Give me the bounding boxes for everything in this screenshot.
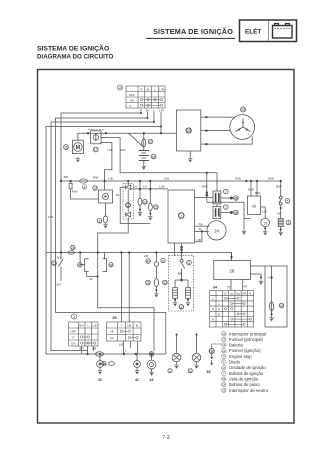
wire lamp44 drop [151, 354, 153, 371]
svg-text:30: 30 [252, 204, 257, 209]
svg-text:P: P [72, 336, 74, 340]
svg-text:R: R [140, 87, 142, 91]
svg-text:L/B: L/B [93, 324, 97, 328]
wire resistor branch [71, 181, 99, 199]
wire bus L from main switch [51, 112, 154, 354]
svg-text:16: 16 [152, 155, 156, 159]
svg-text:12: 12 [52, 262, 56, 266]
svg-text:40: 40 [146, 260, 150, 264]
svg-text:L: L [154, 87, 156, 91]
svg-text:L/B: L/B [127, 324, 131, 328]
svg-text:L/B: L/B [144, 254, 148, 258]
wire table3 drops [82, 346, 94, 354]
ground below 13 [138, 211, 142, 216]
wire unit30 to switch13 [261, 207, 266, 230]
svg-text:Interruptor de neutro: Interruptor de neutro [229, 388, 269, 393]
wire diode box feed [98, 181, 154, 351]
svg-text:7: 7 [180, 214, 182, 218]
wire cdi right B [195, 230, 209, 232]
svg-text:P: P [130, 104, 132, 108]
svg-text:9: 9 [180, 305, 182, 309]
svg-text:B/R: B/R [64, 175, 69, 179]
svg-text:Diodo: Diodo [229, 360, 241, 365]
wire bracket components link [80, 253, 105, 277]
svg-text:Br: Br [146, 108, 149, 112]
svg-text:OFF: OFF [129, 93, 135, 97]
svg-text:27: 27 [222, 338, 226, 342]
svg-text:L/B: L/B [196, 238, 200, 242]
svg-text:26: 26 [241, 108, 245, 112]
wire coil link [216, 204, 218, 207]
svg-text:LO: LO [110, 336, 115, 340]
svg-text:M: M [76, 145, 80, 151]
svg-text:B: B [199, 227, 201, 231]
svg-text:5: 5 [287, 200, 289, 204]
lamp 44 [147, 352, 156, 382]
svg-text:L/B: L/B [262, 210, 266, 214]
svg-text:4: 4 [223, 355, 225, 359]
svg-text:L/W: L/W [48, 215, 53, 219]
ground box28 branch [259, 280, 263, 285]
svg-text:R/W: R/W [93, 176, 99, 180]
sensor 2 [97, 216, 108, 223]
svg-text:2: 2 [99, 219, 101, 223]
svg-text:L/W: L/W [159, 185, 164, 189]
svg-text:20: 20 [71, 246, 75, 250]
svg-text:17: 17 [222, 366, 226, 370]
svg-text:Fusível (principal): Fusível (principal) [229, 337, 263, 342]
lamp 45 [172, 353, 181, 362]
svg-text:Interruptor principal: Interruptor principal [229, 331, 266, 336]
svg-text:Y/R: Y/R [242, 292, 246, 296]
resistor on branch [69, 183, 72, 189]
legend group [222, 331, 269, 393]
svg-text:Y/G: Y/G [268, 276, 274, 280]
svg-text:10: 10 [222, 332, 226, 336]
svg-text:R/W: R/W [248, 188, 254, 192]
svg-text:24: 24 [214, 228, 220, 233]
wire magneto phase 1 [201, 116, 235, 118]
wire bus R from main switch [61, 112, 141, 253]
AC magneto 26 [230, 107, 255, 139]
diode unit 1 dashed box [123, 184, 133, 219]
svg-text:Bobina de ignição: Bobina de ignição [229, 371, 264, 376]
battery icon in header box [273, 24, 293, 38]
relay box 12 [93, 186, 113, 203]
svg-text:41: 41 [135, 378, 139, 382]
fuse F27 main [142, 139, 153, 147]
svg-text:Y: Y [120, 324, 122, 328]
svg-text:ELÉT: ELÉT [245, 27, 261, 36]
svg-text:OFF: OFF [70, 330, 76, 334]
wire main bus 2 [61, 180, 281, 182]
svg-text:L: L [212, 297, 214, 301]
wire lamp41 drop [136, 354, 138, 369]
pickup rotor 24 [207, 221, 226, 240]
svg-text:15: 15 [64, 146, 68, 150]
svg-text:4: 4 [84, 186, 86, 190]
neutral switch 13b [261, 218, 270, 227]
svg-text:Dg: Dg [236, 292, 240, 296]
svg-text:R/W: R/W [255, 191, 261, 195]
svg-text:1: 1 [223, 360, 225, 364]
svg-text:13: 13 [263, 221, 267, 225]
svg-text:23: 23 [222, 388, 226, 392]
wire table35 feeds from bus3 [121, 253, 129, 323]
svg-text:12: 12 [93, 187, 97, 191]
svg-text:L/B: L/B [119, 343, 123, 347]
components group [52, 107, 291, 382]
svg-text:Bobina de pulso: Bobina de pulso [229, 382, 260, 387]
wire R/W drop to coil tops [101, 138, 217, 203]
svg-text:33: 33 [163, 281, 167, 285]
wire box28 top [231, 253, 233, 261]
svg-text:DIAGRAMA DO CIRCUITO: DIAGRAMA DO CIRCUITO [37, 54, 113, 61]
wire bus 3 [46, 253, 232, 261]
wire magneto phase 2 [201, 130, 231, 132]
ignition unit box 7 [168, 190, 195, 243]
svg-text:B: B [136, 324, 138, 328]
svg-text:27: 27 [149, 140, 153, 144]
grounds pickup coils [173, 301, 177, 306]
svg-text:R: R [212, 318, 215, 322]
svg-text:24: 24 [222, 383, 226, 387]
svg-text:L/R: L/R [159, 87, 164, 91]
svg-text:7: 7 [223, 371, 225, 375]
svg-text:35: 35 [112, 316, 116, 320]
dimmer switch table 35 [107, 316, 142, 341]
label lamp 45 [168, 369, 172, 374]
connection table 34 [210, 286, 254, 327]
ground below sensor 2 [103, 223, 107, 228]
svg-text:HI: HI [110, 330, 113, 334]
svg-text:25: 25 [187, 129, 191, 133]
svg-text:44: 44 [150, 378, 154, 382]
fuse 4 on main bus [80, 179, 88, 190]
svg-text:SISTEMA DE IGNIÇÃO: SISTEMA DE IGNIÇÃO [37, 44, 109, 53]
wire box28 right loop [250, 266, 287, 327]
connector break on coil feed [206, 192, 208, 196]
wire table35 drops [124, 341, 138, 354]
svg-text:B/Y: B/Y [57, 255, 62, 259]
svg-text:N: N [218, 307, 220, 311]
wire magneto phase 3 [201, 136, 252, 144]
engine stop switch 5 [279, 196, 290, 205]
tables group [69, 85, 254, 346]
wire coil common [207, 202, 251, 229]
svg-text:7: 7 [225, 206, 227, 210]
lamp 41 [134, 361, 141, 382]
ground engine stop chain [279, 231, 283, 236]
ground below 23 [148, 215, 152, 220]
unit box 30 [248, 196, 261, 214]
svg-text:8: 8 [162, 259, 164, 263]
svg-text:L: L [87, 324, 89, 328]
resistor 43 [270, 302, 284, 311]
svg-text:Sb: Sb [116, 193, 120, 197]
svg-text:23: 23 [146, 281, 150, 285]
svg-text:L/W: L/W [164, 176, 169, 180]
pulse unit box 28 [214, 261, 251, 280]
connector break on cdi drop [181, 246, 183, 251]
wire engine stop chain [280, 181, 282, 231]
wire neutral branch D [149, 181, 151, 215]
bracket resistor 30b [103, 256, 114, 272]
wire resistor 43 chain [271, 266, 273, 316]
wire battery drop [143, 133, 145, 150]
svg-text:L: L [218, 302, 220, 306]
svg-text:SISTEMA DE IGNIÇÃO: SISTEMA DE IGNIÇÃO [153, 27, 233, 36]
wire chain 33 [155, 253, 157, 293]
svg-text:46: 46 [234, 211, 238, 215]
wire unit30 feeds [251, 181, 257, 196]
wire diagonal to battery [129, 133, 144, 147]
wires group [46, 112, 287, 371]
svg-text:B/R: B/R [178, 272, 183, 276]
svg-text:N: N [212, 307, 214, 311]
wire cdi right Dg [195, 225, 210, 227]
svg-text:23: 23 [154, 206, 158, 210]
svg-text:10: 10 [118, 86, 122, 90]
wire plug lead 1 [221, 197, 231, 199]
svg-text:Dg: Dg [199, 222, 203, 226]
handlebar switch table 3 [69, 314, 98, 346]
ignition coil connector 7a [213, 189, 228, 204]
svg-text:B/W: B/W [276, 185, 282, 189]
svg-text:43: 43 [280, 304, 284, 308]
svg-text:L/W: L/W [107, 148, 112, 152]
svg-text:8: 8 [288, 221, 290, 225]
svg-text:46: 46 [234, 197, 238, 201]
fuse F17 [91, 131, 101, 152]
switch 23 [148, 203, 158, 210]
header title text [37, 20, 297, 441]
ground below 13b [263, 230, 267, 235]
main switch table 10 [117, 85, 165, 108]
svg-text:L/B: L/B [92, 347, 96, 351]
wire plug lead 2 [221, 212, 231, 214]
wire fuse feed line [78, 132, 176, 134]
ignition coil connector 7b [213, 205, 228, 219]
wire neutral branch C [139, 181, 141, 211]
side switch 12b [52, 261, 57, 266]
wire switch chain left [59, 253, 64, 282]
wire cdi bottom drop [175, 243, 182, 259]
svg-text:R: R [218, 312, 221, 316]
svg-text:R/W: R/W [202, 184, 208, 188]
schematic frame [38, 70, 295, 424]
ground resistor 43 [269, 316, 273, 321]
svg-text:34: 34 [213, 286, 218, 290]
svg-text:Fusível (ignição): Fusível (ignição) [229, 348, 261, 353]
bracket resistor 47 [78, 259, 89, 272]
svg-text:R: R [140, 108, 142, 112]
svg-text:Br: Br [147, 87, 150, 91]
wire lamp46 drop [196, 335, 198, 364]
wire lamp42 drop [99, 354, 101, 369]
svg-text:20: 20 [189, 369, 193, 373]
ground below motor [76, 157, 80, 162]
svg-text:7-3: 7-3 [162, 435, 169, 441]
svg-text:R/W: R/W [235, 177, 241, 181]
svg-text:Engine stop: Engine stop [229, 354, 252, 359]
rectifier box 25 [176, 110, 200, 151]
ground chain 33 [154, 292, 158, 297]
svg-text:46: 46 [222, 377, 226, 381]
svg-text:Ch: Ch [224, 292, 228, 296]
ground coil common [242, 230, 246, 235]
svg-text:30: 30 [109, 263, 113, 267]
wire diode output to unit [131, 188, 168, 190]
svg-text:28: 28 [229, 269, 235, 274]
svg-text:L/Y: L/Y [143, 185, 147, 189]
pickup coil dashed box 9 [169, 256, 194, 311]
ground below battery [142, 165, 146, 170]
clutch switch chain 33 [146, 258, 168, 286]
label lamp 46c [188, 369, 192, 374]
svg-text:6: 6 [188, 261, 190, 265]
svg-text:B/Y: B/Y [57, 283, 62, 287]
wire bottom bus [46, 353, 166, 355]
svg-text:Y/B: Y/B [277, 212, 282, 216]
wire motor lead [77, 133, 79, 140]
wire color labels [48, 108, 282, 352]
svg-text:L: L [153, 108, 155, 112]
svg-text:7: 7 [225, 190, 227, 194]
lamp 46c [192, 353, 201, 362]
svg-text:Sb: Sb [89, 277, 93, 281]
svg-text:Bateria: Bateria [229, 343, 243, 348]
svg-text:L/B: L/B [108, 177, 112, 181]
relay 20 on bus 3 [68, 245, 75, 254]
svg-text:R/W: R/W [120, 148, 126, 152]
resistor spark plug chain [278, 219, 291, 227]
battery 16 [139, 151, 156, 165]
svg-text:B/Y: B/Y [79, 324, 84, 328]
svg-text:wn: wn [227, 285, 231, 289]
svg-text:L/Y: L/Y [134, 185, 138, 189]
switch 13 [138, 198, 147, 205]
svg-text:ON: ON [130, 98, 134, 102]
svg-text:L/R: L/R [159, 108, 164, 112]
dashed tag above fuse 17 [88, 128, 104, 130]
svg-text:Vela de ignição: Vela de ignição [229, 377, 259, 382]
wire bus L/R from main switch [46, 112, 161, 354]
svg-text:16: 16 [222, 343, 226, 347]
lamp 42 [97, 361, 104, 382]
wire box25 ground lead [189, 151, 191, 157]
svg-text:B/Y: B/Y [80, 347, 85, 351]
svg-text:3: 3 [73, 315, 75, 319]
spark terminal 46b [230, 210, 238, 215]
ground below box 25 [188, 157, 192, 162]
svg-text:47: 47 [78, 263, 82, 267]
svg-text:R/W: R/W [268, 177, 274, 181]
wire lamp45 drop [176, 335, 178, 364]
svg-text:Y/R: Y/R [242, 285, 247, 289]
wire pickup switch chain [175, 263, 188, 302]
wire box28 gnd branch [250, 274, 261, 279]
wire bus Br from main switch [56, 112, 166, 354]
svg-text:L: L [125, 349, 127, 353]
wire cdi to coil1 [195, 197, 214, 199]
indicator chain 36 [206, 344, 221, 374]
starter motor M15 [64, 140, 84, 153]
svg-text:wn: wn [230, 293, 234, 296]
fuse 36 on bottom bus [96, 352, 115, 366]
svg-text:13: 13 [143, 201, 147, 205]
wire box28 to table [231, 280, 243, 291]
wire diode unit drop [105, 203, 107, 217]
svg-text:17: 17 [94, 148, 98, 152]
wire cdi right L/B jog [195, 231, 202, 241]
wire L/W drop to relay [101, 143, 112, 190]
spark terminal 46a [230, 196, 238, 201]
svg-text:36: 36 [206, 369, 211, 374]
svg-text:R/W: R/W [72, 190, 78, 194]
svg-text:21: 21 [222, 349, 226, 353]
svg-text:42: 42 [98, 378, 102, 382]
svg-text:ON: ON [71, 342, 75, 346]
svg-text:Unidade de ignição: Unidade de ignição [229, 365, 266, 370]
svg-text:B: B [250, 292, 252, 296]
